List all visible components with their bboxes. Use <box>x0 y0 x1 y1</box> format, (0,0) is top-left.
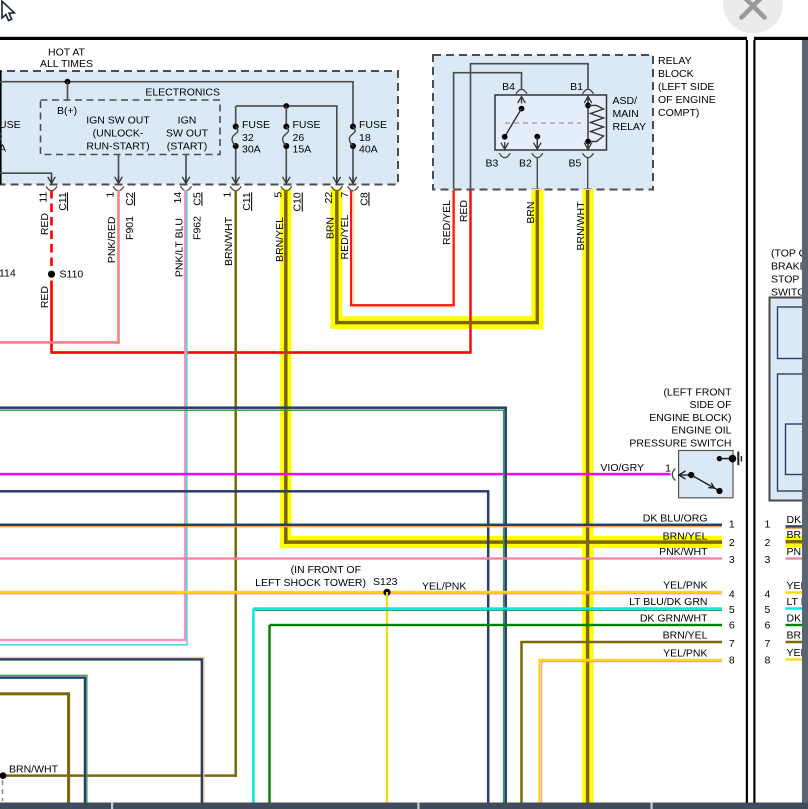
wire relay B1 top-route <box>587 64 589 89</box>
wire left olive <box>0 692 70 695</box>
wire BRN/YEL core <box>284 190 288 544</box>
highlight band BRN U horizontal <box>330 316 542 329</box>
svg-text:B4: B4 <box>502 81 515 93</box>
svg-text:DK BLU/ORG: DK BLU/ORG <box>643 513 708 525</box>
svg-text:ELECTRONICS: ELECTRONICS <box>145 87 220 99</box>
wire fuse26 top <box>286 106 288 127</box>
svg-text:15A: 15A <box>293 143 312 155</box>
bottom bar gap 3 <box>651 803 653 809</box>
relay B2 node <box>534 134 540 140</box>
svg-text:RED: RED <box>39 213 51 236</box>
wire DK BLU/DK GRN green companion <box>0 410 504 411</box>
wire PNK/RED <box>117 190 120 344</box>
svg-text:FUSE: FUSE <box>242 119 270 131</box>
arrow exit fuse-block col7 <box>349 177 357 184</box>
pin arc 7 at x353 <box>348 186 359 191</box>
panel2 stub wire BRN/YEL <box>786 540 807 543</box>
svg-text:BRN/YEL: BRN/YEL <box>663 630 708 642</box>
wire VIO/GRY <box>0 473 671 476</box>
svg-text:7: 7 <box>729 638 735 650</box>
svg-text:3: 3 <box>764 554 770 566</box>
wire RED/YEL gold companion <box>353 190 354 308</box>
svg-text:VIO/GRY: VIO/GRY <box>600 462 644 474</box>
relay switch to B3 arrow <box>501 143 509 150</box>
wire row5 LT BLU/DK GRN <box>253 607 722 609</box>
svg-text:(START): (START) <box>167 141 207 153</box>
splice S123 <box>383 589 390 596</box>
oil switch blade <box>691 475 719 491</box>
svg-text:4: 4 <box>729 589 735 601</box>
main panel top border <box>0 37 747 40</box>
highlight band BRN B2 vertical <box>532 189 544 329</box>
pin arc 11 at x51.5 <box>46 186 57 191</box>
svg-text:(IN FRONT OF: (IN FRONT OF <box>291 564 361 576</box>
arrow exit fuse-block col4 <box>232 177 240 184</box>
relay switch arrow in <box>518 97 526 104</box>
highlight band BRN/YEL row2 horizontal <box>280 536 722 548</box>
node junction fuse26 feed <box>283 103 289 109</box>
bottom bar gap 1 <box>111 803 113 809</box>
svg-text:SW OUT: SW OUT <box>166 128 209 140</box>
svg-text:30A: 30A <box>242 143 261 155</box>
svg-text:2: 2 <box>764 537 770 549</box>
svg-text:6: 6 <box>764 620 770 632</box>
svg-text:S110: S110 <box>60 269 84 281</box>
svg-text:40A: 40A <box>359 143 378 155</box>
arrow exit fuse-block col2 <box>115 177 123 184</box>
svg-text:LT BLU/DK GRN: LT BLU/DK GRN <box>629 596 707 608</box>
bus wire hot-at-all-times <box>0 81 354 83</box>
wire RED riser to B1 <box>469 190 471 353</box>
panel2 stub wire LT BLU/DK GRN <box>786 607 807 609</box>
svg-text:BRN/WHT: BRN/WHT <box>575 201 587 251</box>
svg-text:1: 1 <box>222 192 234 198</box>
svg-text:PNK/WHT: PNK/WHT <box>659 546 708 558</box>
panel2 left border <box>753 40 755 803</box>
svg-text:(LEFT FRONT: (LEFT FRONT <box>663 386 732 398</box>
pin B3 arc <box>499 153 510 158</box>
svg-text:F962: F962 <box>191 216 203 240</box>
pin B2 arc <box>532 153 543 158</box>
svg-text:BRN: BRN <box>525 202 537 224</box>
svg-text:FUSE: FUSE <box>293 119 321 131</box>
svg-text:26: 26 <box>293 132 305 144</box>
wire B(+) drop <box>67 82 69 100</box>
panel2 inner box 2 <box>778 374 808 491</box>
splice S110 <box>48 271 55 278</box>
svg-text:PNK/RED: PNK/RED <box>106 216 118 263</box>
pin B4 arc <box>516 89 527 94</box>
svg-text:A: A <box>0 143 6 155</box>
svg-text:ENGINE BLOCK): ENGINE BLOCK) <box>649 412 731 424</box>
oil switch arrow <box>679 471 686 479</box>
relay coil bottom node <box>585 139 591 145</box>
relay coil zigzag <box>588 105 604 141</box>
svg-text:BRN/WHT: BRN/WHT <box>223 216 235 266</box>
panel2 stub orange companion row1 <box>786 528 807 529</box>
highlight band BRN/YEL C10 vertical <box>280 189 291 548</box>
oil switch common node <box>688 472 694 478</box>
svg-text:14: 14 <box>172 192 184 204</box>
svg-text:C2: C2 <box>124 192 136 206</box>
wire BRN/WHT bottom horizontal <box>3 774 237 777</box>
svg-text:C5: C5 <box>191 192 203 206</box>
relay body rect <box>495 95 607 150</box>
wire BRN/WHT fuse32 vertical <box>234 190 237 777</box>
pin B5 arc <box>583 153 594 158</box>
wire PNK/LT BLU ltblu companion <box>186 190 188 646</box>
wire left fuse output <box>0 172 52 174</box>
svg-text:1: 1 <box>665 463 671 475</box>
relay switch blade <box>505 109 522 137</box>
svg-text:C11: C11 <box>57 192 69 211</box>
svg-text:RED/YEL: RED/YEL <box>441 200 453 245</box>
panel2 stub wire BRN/YEL <box>786 641 807 644</box>
svg-text:5: 5 <box>729 604 735 616</box>
svg-text:YEL/PNK: YEL/PNK <box>422 580 466 592</box>
fuse F18 symbol <box>350 124 356 130</box>
svg-text:ASD/: ASD/ <box>613 95 638 107</box>
wire ign unlock drop <box>118 155 120 181</box>
pin B1 arc <box>583 89 594 94</box>
wire row4 YEL/PNK <box>0 591 722 593</box>
electronics box <box>41 100 221 155</box>
svg-text:B1: B1 <box>570 81 583 93</box>
wire PNK/LT BLU pink <box>184 190 186 641</box>
oil switch upper contact node <box>717 456 722 461</box>
relay block box <box>433 55 653 190</box>
arrow exit fuse-block col3 <box>182 177 190 184</box>
right gray background column <box>802 40 808 809</box>
wire BRN core U <box>335 190 338 324</box>
svg-text:RUN-START): RUN-START) <box>86 141 149 153</box>
svg-text:DK GRN/WHT: DK GRN/WHT <box>640 613 708 625</box>
svg-text:RED: RED <box>39 286 51 309</box>
wire row1 DK BLU/ORG <box>0 524 722 527</box>
fuse F26 symbol <box>283 124 289 130</box>
wire ign start drop <box>185 155 187 181</box>
wire relay B5 out <box>587 157 588 189</box>
case ground symbol <box>737 452 739 466</box>
splice node BRN/WHT <box>0 772 6 779</box>
svg-text:6: 6 <box>729 620 735 632</box>
pin arc 22 at x336.8 <box>331 186 342 191</box>
svg-text:1: 1 <box>764 519 770 531</box>
wire stub dashed below splice <box>2 780 4 801</box>
main panel right border <box>746 40 748 803</box>
wire DK BLU mid <box>0 490 489 493</box>
arrow exit fuse-block col6 <box>333 177 341 184</box>
fuse block left edge <box>0 71 2 185</box>
wire BRN/WHT B5 core <box>586 190 589 803</box>
svg-text:5: 5 <box>764 604 770 616</box>
panel2 stub wire PNK/WHT <box>786 557 807 559</box>
wire fuse18 feed from bus <box>352 82 354 127</box>
wire row3 PNK/WHT <box>0 557 722 559</box>
svg-text:2: 2 <box>729 537 735 549</box>
pin arc 1 at x118.5 <box>113 186 124 191</box>
svg-text:IGN SW OUT: IGN SW OUT <box>86 115 150 127</box>
svg-text:PNK/LT BLU: PNK/LT BLU <box>174 218 186 277</box>
panel2 stop light switch box <box>770 298 807 501</box>
svg-text:5: 5 <box>272 192 284 198</box>
wire relay B2 out <box>537 157 538 189</box>
svg-text:RELAY: RELAY <box>658 55 692 67</box>
svg-text:22: 22 <box>323 192 335 204</box>
panel2 top border <box>754 37 808 40</box>
svg-text:LEFT SHOCK TOWER): LEFT SHOCK TOWER) <box>255 577 366 589</box>
svg-text:114: 114 <box>0 268 16 280</box>
relay coil arrow in <box>584 97 592 104</box>
svg-text:COMPT): COMPT) <box>658 107 699 119</box>
svg-text:32: 32 <box>242 132 254 144</box>
relay switch common node <box>519 106 525 112</box>
relay B2 stub <box>537 137 538 150</box>
gray column overlay <box>802 40 808 803</box>
svg-text:1: 1 <box>729 519 735 531</box>
wire fuse32 out <box>235 146 237 181</box>
oil switch pin arc <box>672 469 675 481</box>
mouse cursor <box>2 1 14 20</box>
panel2 inner box 3 <box>786 424 808 475</box>
panel2 stub wire YEL/PNK <box>786 591 807 593</box>
bottom bar gap 2 <box>417 803 419 809</box>
svg-text:USE: USE <box>0 119 21 131</box>
svg-text:7: 7 <box>339 192 351 198</box>
svg-text:B2: B2 <box>519 158 532 170</box>
highlight band BRN pin22 vertical <box>330 189 342 329</box>
svg-text:C8: C8 <box>358 192 370 206</box>
svg-text:C11: C11 <box>241 192 253 211</box>
svg-text:7: 7 <box>764 638 770 650</box>
relay B5 arrow <box>584 143 592 150</box>
engine oil pressure switch box <box>679 451 733 498</box>
wire relay B4 top-route <box>521 73 523 89</box>
svg-text:BLOCK: BLOCK <box>658 68 694 80</box>
wire fuse32 top <box>235 106 237 127</box>
svg-text:PRESSURE SWITCH: PRESSURE SWITCH <box>629 438 731 450</box>
svg-text:3: 3 <box>729 554 735 566</box>
bus wire fuse feed <box>236 105 338 107</box>
svg-text:8: 8 <box>729 655 735 667</box>
wire pin22 drop <box>336 106 338 181</box>
wire S123 drop <box>386 592 388 803</box>
panel2 inner box 1 <box>778 307 808 359</box>
svg-text:RED/YEL: RED/YEL <box>339 214 351 259</box>
fuse block box <box>0 71 398 185</box>
oil switch lower contact node <box>716 488 722 494</box>
svg-text:BRN/WHT: BRN/WHT <box>9 764 59 776</box>
relay B2 arrow <box>534 143 542 150</box>
oil switch case node <box>729 455 737 463</box>
svg-text:RELAY: RELAY <box>613 121 647 133</box>
svg-text:18: 18 <box>359 132 371 144</box>
svg-text:ALL TIMES: ALL TIMES <box>40 58 93 70</box>
relay coil top node <box>585 103 591 109</box>
svg-text:IGN: IGN <box>178 115 197 127</box>
svg-text:YEL/PNK: YEL/PNK <box>663 580 707 592</box>
svg-text:BRN/YEL: BRN/YEL <box>663 530 708 542</box>
highlight band BRN/WHT B5 vertical <box>582 189 593 803</box>
relay switch contact node <box>502 134 508 140</box>
svg-text:8: 8 <box>764 655 770 667</box>
svg-text:(UNLOCK-: (UNLOCK- <box>93 128 144 140</box>
bottom dark bar <box>0 803 808 809</box>
svg-text:FUSE: FUSE <box>359 119 387 131</box>
relay actuating dashed link <box>505 122 581 124</box>
svg-text:11: 11 <box>38 192 50 203</box>
svg-text:OF ENGINE: OF ENGINE <box>658 94 716 106</box>
svg-text:YEL/PNK: YEL/PNK <box>663 647 707 659</box>
svg-text:BRN: BRN <box>324 217 336 239</box>
svg-text:BRN/YEL: BRN/YEL <box>274 217 286 262</box>
svg-text:1: 1 <box>105 192 117 198</box>
wire RED dashed segment <box>50 190 53 269</box>
wire row8 YEL/PNK <box>538 659 722 661</box>
highlight band row2 panel2 <box>786 536 803 548</box>
wire left navy+green pair <box>0 675 88 676</box>
wire DK BLU/DK GRN navy <box>0 406 507 409</box>
panel2 stub wire DK BLU/ORG <box>786 525 807 528</box>
close button <box>723 0 783 34</box>
svg-text:HOT AT: HOT AT <box>48 47 86 59</box>
pin arc 14 at x186 <box>181 186 192 191</box>
panel2 stub wire YEL/PNK <box>786 658 807 660</box>
panel2 stub wire DK GRN/WHT <box>786 624 807 626</box>
wire fuse26 out <box>286 146 288 181</box>
wire row6 DK GRN/WHT <box>270 624 723 626</box>
wire RED solid <box>50 281 53 354</box>
pin arc 5 at x286.3 <box>281 186 292 191</box>
left fuse partial curve <box>0 133 1 141</box>
svg-text:MAIN: MAIN <box>613 108 639 120</box>
fuse F32 symbol <box>233 124 239 130</box>
wire fuse18 out <box>352 146 354 181</box>
relay coil wire <box>587 97 588 150</box>
svg-text:ENGINE OIL: ENGINE OIL <box>671 425 731 437</box>
svg-text:(LEFT SIDE: (LEFT SIDE <box>658 81 714 93</box>
svg-text:4: 4 <box>764 589 770 601</box>
wire row7 BRN/YEL <box>520 641 722 644</box>
svg-text:B(+): B(+) <box>57 105 77 117</box>
arrow exit fuse-block col1 <box>48 177 56 184</box>
svg-text:B5: B5 <box>569 158 582 170</box>
wire RED horizontal <box>52 351 472 354</box>
wire left navy+gold pair <box>0 657 205 658</box>
svg-text:B3: B3 <box>486 158 499 170</box>
oil switch case link <box>719 458 732 460</box>
svg-text:S123: S123 <box>373 576 398 588</box>
svg-text:F901: F901 <box>124 216 136 240</box>
svg-text:SIDE OF: SIDE OF <box>689 399 731 411</box>
pin arc 1 at x235.7 <box>230 186 241 191</box>
svg-text:RED: RED <box>458 200 470 223</box>
svg-text:C10: C10 <box>292 192 304 211</box>
wire RED/YEL core <box>350 190 352 306</box>
arrow exit fuse-block col5 <box>283 177 291 184</box>
node junction B(+) feed <box>65 79 71 85</box>
